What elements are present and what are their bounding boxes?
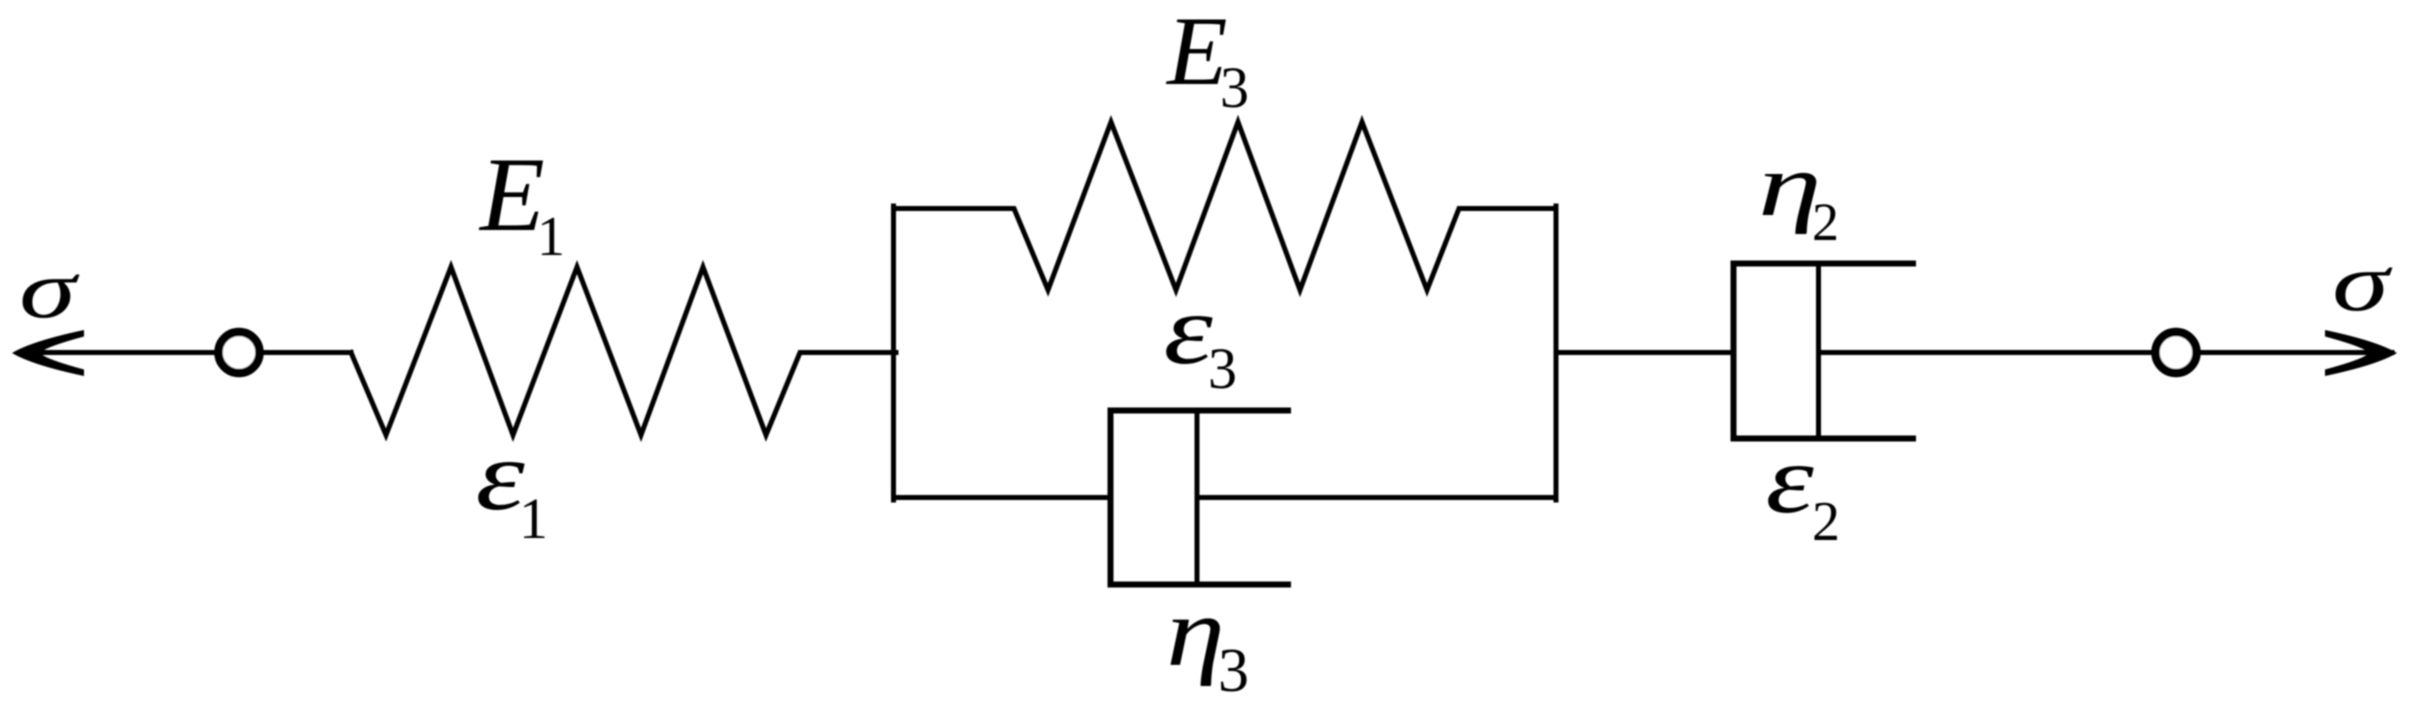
svg-text:η: η — [1166, 577, 1225, 687]
svg-text:2: 2 — [1812, 192, 1839, 252]
svg-text:3: 3 — [1220, 55, 1249, 120]
svg-text:σ: σ — [19, 243, 80, 335]
svg-text:1: 1 — [537, 206, 565, 268]
svg-text:σ: σ — [2332, 236, 2393, 328]
svg-text:3: 3 — [1218, 637, 1249, 705]
svg-text:ε: ε — [1164, 275, 1214, 385]
svg-text:E: E — [478, 136, 545, 253]
svg-text:2: 2 — [1812, 491, 1840, 553]
svg-text:ε: ε — [1766, 425, 1815, 534]
svg-text:3: 3 — [1208, 336, 1237, 401]
svg-text:E: E — [1165, 0, 1227, 106]
svg-text:1: 1 — [519, 486, 548, 551]
svg-text:ε: ε — [476, 421, 526, 531]
